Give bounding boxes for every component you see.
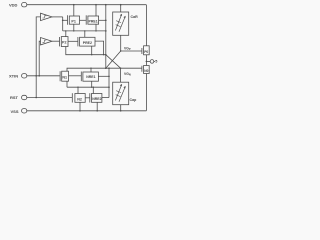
svg-text:VGP: VGP <box>124 46 131 51</box>
wire row2 output corner down <box>95 41 104 55</box>
capacitor CaR variable array <box>113 12 129 35</box>
wire RST net to row4 gate <box>27 97 72 99</box>
transistor P2 row2 gate bar <box>59 37 61 46</box>
node NRE2 source junction <box>93 87 94 88</box>
wire row3 mid <box>69 75 82 77</box>
wire CaR bottom to VGp <box>120 35 122 51</box>
node PRE2 source junction <box>84 30 85 31</box>
wire row4 output to mid rail <box>102 97 109 99</box>
wire between rows 1-2 <box>63 30 106 32</box>
wire CaP top to VGn <box>120 68 122 82</box>
wire crossing X upper-left to lower-right <box>106 55 121 68</box>
node CaR/VGp junction <box>120 50 121 51</box>
svg-text:N1: N1 <box>62 76 67 80</box>
node N2 source junction <box>77 87 78 88</box>
wire row2 drain stubs and under-wire <box>66 47 106 55</box>
node dot riser1/XT <box>35 75 37 77</box>
transistor N1 row3 gate bar <box>59 71 61 81</box>
transistor NRE2 row4 body <box>92 94 102 103</box>
node NRE1 drain junction <box>91 87 92 88</box>
svg-text:PRE2: PRE2 <box>83 41 92 45</box>
transistor N2 row4 gate bar <box>71 93 73 102</box>
transistor PRE1 row1 body <box>88 16 99 24</box>
transistor P0 body <box>144 46 150 55</box>
svg-text:N0: N0 <box>144 69 148 73</box>
node PRE2 drain junction <box>91 54 92 55</box>
wire right rail down to P0 <box>145 5 147 46</box>
wire CaR top to VDD <box>120 5 122 12</box>
wire riser buffer1 input <box>36 17 40 98</box>
wire top rail VDD <box>27 4 147 6</box>
svg-text:Cap: Cap <box>130 98 138 102</box>
pin XT output circle <box>150 60 154 64</box>
svg-text:NRE2: NRE2 <box>92 97 101 101</box>
wire pin tick <box>154 60 155 62</box>
svg-text:P0: P0 <box>144 50 148 54</box>
pin VDD <box>9 2 27 7</box>
wire row1 source stubs to VDD <box>73 5 75 16</box>
wire between rows 3-4 <box>67 86 109 88</box>
transistor NRE2 row4 gate bar <box>89 93 91 102</box>
svg-text:NRE1: NRE1 <box>86 75 95 79</box>
node CaP/VGn junction <box>120 68 121 69</box>
transistor PRE2 row2 body <box>80 37 95 46</box>
wire row2 top stubs <box>65 31 67 37</box>
wire row4 mid <box>85 97 90 99</box>
wire row3 drain stubs <box>66 81 68 87</box>
transistor NRE1 row3 body <box>83 72 99 81</box>
wire row3 over loop <box>67 68 142 71</box>
wire row4 top stubs <box>77 87 79 93</box>
svg-text:CaR: CaR <box>131 15 139 19</box>
node P2 source junction <box>65 30 66 31</box>
transistor PRE1 row1 gate bar <box>85 15 87 24</box>
wire row1 output to mid rail <box>99 19 106 21</box>
svg-text:P1: P1 <box>71 20 76 24</box>
svg-text:VGN: VGN <box>124 72 131 77</box>
svg-text:XTIN: XTIN <box>9 73 18 78</box>
transistor N0 gate bar <box>141 66 143 72</box>
pin RST <box>10 95 27 100</box>
pin XTIN <box>9 73 27 78</box>
node PRE1 drain junction <box>95 30 96 31</box>
svg-text:RST: RST <box>10 95 19 100</box>
svg-text:5: 5 <box>155 60 157 64</box>
node dot output <box>146 61 148 63</box>
wire row1 gate branch <box>63 19 68 21</box>
wire row3 output to mid rail <box>108 68 110 97</box>
wire buffer1 out <box>52 16 63 18</box>
svg-text:N2: N2 <box>77 97 82 101</box>
svg-text:PRE1: PRE1 <box>89 20 98 24</box>
wire P0 drain / N0 drain node <box>145 55 147 66</box>
transistor P2 row2 body <box>61 37 68 47</box>
transistor P1 row1 gate bar <box>67 15 69 24</box>
node row2 output junction <box>103 54 104 55</box>
wire bottom rail VSS <box>27 110 147 112</box>
node dot row1 gate <box>62 20 64 22</box>
node dot riser1/RST <box>35 97 37 99</box>
wire row2 mid <box>68 40 78 42</box>
transistor N0 body <box>144 66 150 74</box>
svg-text:P2: P2 <box>62 41 67 45</box>
wire mid rail <box>105 5 107 68</box>
op-amp buffer B1 <box>41 13 53 20</box>
wire riser buffer2 input <box>39 41 40 76</box>
transistor P1 row1 body <box>69 16 79 24</box>
transistor NRE1 row3 gate bar <box>80 72 82 82</box>
wire row1 drain stubs <box>73 24 75 31</box>
node NRE1 source junction <box>90 68 91 69</box>
transistor N1 row3 body <box>62 71 69 81</box>
wire output node to pin circle <box>146 60 150 62</box>
svg-text:VDD: VDD <box>9 2 18 7</box>
transistor P0 gate bar <box>141 48 143 54</box>
wire buffer2 out to row2 gate <box>52 40 59 42</box>
wire right rail up to N0 <box>145 74 147 111</box>
transistor PRE2 row2 gate bar <box>77 37 79 46</box>
wire row4 source stubs to VSS <box>79 102 81 111</box>
transistor N2 row4 body <box>75 94 85 103</box>
wire row1 mid <box>80 19 86 21</box>
svg-text:VSS: VSS <box>11 109 19 114</box>
wire VGp to P0 gate <box>121 50 142 52</box>
op-amp buffer B2 <box>41 38 53 45</box>
wire crossing X lower-left to upper-right <box>106 51 121 68</box>
pin VSS <box>11 109 27 114</box>
wire riser buffer1 out down to between-wire A <box>62 17 64 31</box>
wire XT net to row3 gate <box>27 75 60 77</box>
node P1 drain junction <box>73 30 74 31</box>
capacitor CaP variable array <box>113 82 129 105</box>
wire CaP bottom to VSS <box>120 105 122 111</box>
node dot riser2/XT <box>38 75 40 77</box>
